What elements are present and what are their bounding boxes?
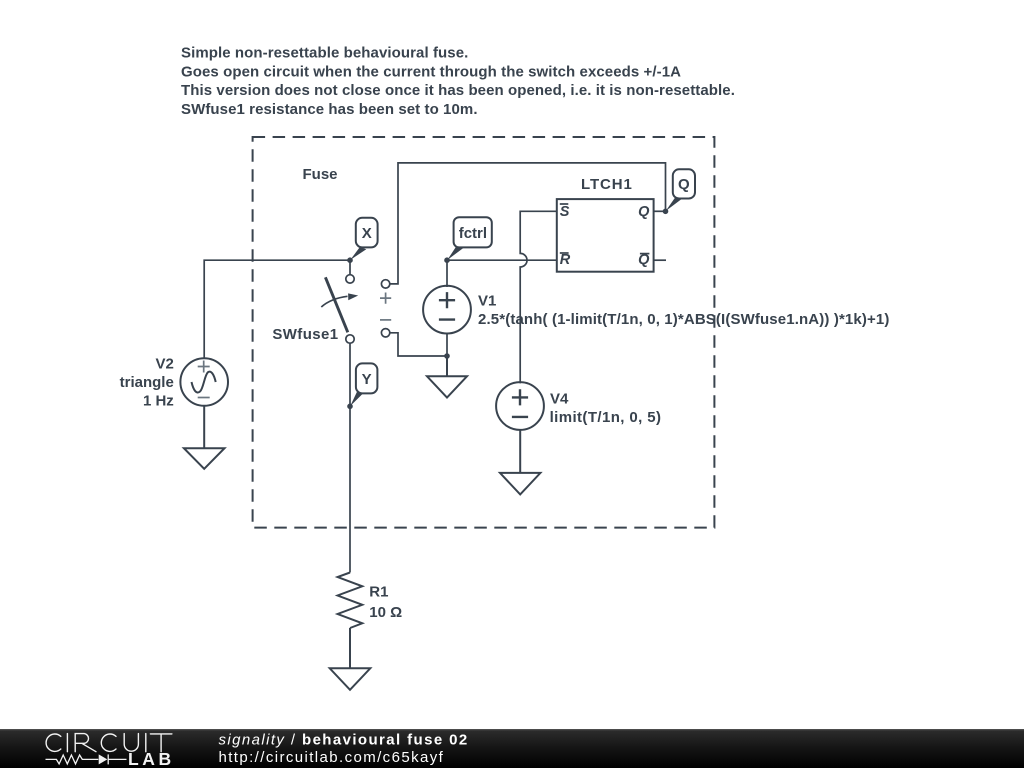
- svg-text:LAB: LAB: [128, 749, 175, 768]
- ground under V2: [184, 406, 225, 469]
- svg-text:V1: V1: [478, 293, 496, 310]
- svg-text:Q: Q: [638, 252, 650, 268]
- wire fctrl node to latch R pin: [447, 259, 557, 261]
- resistor R1: [338, 573, 363, 629]
- svg-text:1 Hz: 1 Hz: [143, 393, 174, 410]
- svg-text:signality / behavioural fuse 0: signality / behavioural fuse 02: [219, 732, 469, 749]
- svg-text:V2: V2: [155, 355, 173, 372]
- svg-text:SWfuse1 resistance has been se: SWfuse1 resistance has been set to 10m.: [181, 101, 478, 118]
- label R1 10 ohm: [369, 584, 402, 621]
- node X flag: [350, 218, 377, 260]
- svg-text:Fuse: Fuse: [303, 166, 338, 183]
- voltage source V1: [423, 286, 471, 334]
- subcircuit box Fuse (dashed): [253, 137, 715, 528]
- label V1 expression: [478, 293, 889, 329]
- switch control terminals: [380, 280, 391, 337]
- svg-text:This version does not close on: This version does not close once it has …: [181, 82, 735, 99]
- svg-text:fctrl: fctrl: [459, 225, 487, 242]
- node Y junction dot: [347, 404, 353, 410]
- svg-text:Goes open circuit when the cur: Goes open circuit when the current throu…: [181, 63, 681, 80]
- wire V1 top to fctrl node: [446, 260, 448, 287]
- wire V2 top to node X: [204, 260, 350, 359]
- svg-text:X: X: [362, 225, 372, 242]
- svg-text:R: R: [560, 252, 571, 268]
- svg-text:Simple non-resettable behaviou: Simple non-resettable behavioural fuse.: [181, 45, 468, 62]
- node fctrl junction dot: [444, 257, 450, 263]
- svg-text:LTCH1: LTCH1: [581, 176, 633, 193]
- node Y flag: [350, 363, 377, 406]
- node Q flag: [666, 169, 695, 211]
- latch LTCH1: [557, 199, 666, 272]
- svg-text:Q: Q: [678, 176, 690, 193]
- svg-text:Y: Y: [362, 371, 372, 388]
- node X junction dot: [347, 257, 353, 263]
- node Q junction dot: [663, 209, 669, 215]
- svg-text:triangle: triangle: [120, 374, 174, 391]
- CircuitLab logo: [46, 734, 175, 768]
- wire switch to R1: [349, 343, 351, 572]
- wire control+ up across top down to latch Q node: [390, 163, 666, 284]
- svg-text:10 Ω: 10 Ω: [369, 604, 402, 621]
- switch SWfuse1: [321, 260, 358, 343]
- svg-text:V4: V4: [550, 390, 569, 407]
- label V4 limit: [550, 390, 662, 426]
- ground under R1: [330, 628, 371, 690]
- node fctrl flag: [447, 217, 492, 260]
- svg-text:R1: R1: [369, 584, 388, 601]
- footer title text: [219, 732, 469, 767]
- voltage source V4: [496, 382, 544, 430]
- label V2 triangle 1 Hz: [120, 355, 174, 409]
- description text: [181, 45, 735, 118]
- svg-text:Q: Q: [638, 204, 650, 220]
- svg-text:limit(T/1n, 0, 5): limit(T/1n, 0, 5): [550, 409, 662, 426]
- svg-text:http://circuitlab.com/c65kayf: http://circuitlab.com/c65kayf: [219, 749, 445, 766]
- voltage source V2: [180, 358, 228, 406]
- svg-text:2.5*(tanh( (1-limit(T/1n, 0, 1: 2.5*(tanh( (1-limit(T/1n, 0, 1)*ABS(I(SW…: [478, 311, 889, 328]
- wire control- to V1 bottom node: [390, 333, 447, 356]
- svg-text:S: S: [560, 204, 570, 220]
- wire V4 to latch S pin with hop over fctrl wire: [520, 211, 557, 383]
- wire V1 bottom node: [446, 333, 448, 356]
- ground under V1: [427, 356, 467, 398]
- svg-text:SWfuse1: SWfuse1: [272, 326, 338, 343]
- ground under V4: [500, 430, 540, 495]
